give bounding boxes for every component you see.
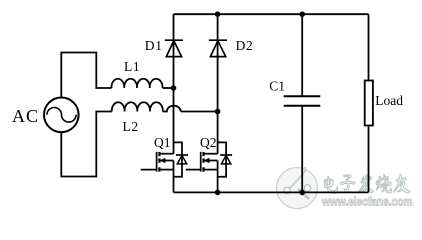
node dot Q2 source bottom — [215, 190, 221, 196]
wire top rail — [174, 13, 369, 15]
Q2 body diode branch — [218, 142, 227, 176]
diode D2 — [209, 40, 227, 56]
Q1 drain stub — [160, 153, 174, 155]
wire bottom rail — [174, 191, 369, 193]
Q2 drain stub — [204, 153, 218, 155]
Q2 gate bar — [200, 152, 202, 172]
Q1 body stub — [160, 160, 174, 162]
wire load bottom lead — [368, 126, 370, 193]
node dot C1 top — [299, 11, 305, 17]
svg-text:www.elecfans.com: www.elecfans.com — [321, 194, 412, 208]
AC source V1 — [44, 98, 79, 133]
node dot L1-D1 junction — [171, 85, 177, 91]
wire load top lead — [368, 14, 370, 80]
wire D2 column: rail to Q2 drain — [217, 14, 219, 154]
Q1 source vertical — [173, 161, 175, 193]
node dot D2 top — [215, 11, 221, 17]
Q2 gate lead — [186, 169, 201, 171]
wire C1 top lead — [301, 14, 303, 96]
Q1 source stub — [160, 169, 174, 171]
resistor Load — [365, 81, 373, 126]
transistor Q2 — [186, 142, 232, 192]
wire L1 to D1 node — [163, 87, 174, 89]
node dot L2-D2 junction — [215, 109, 221, 115]
wire AC bottom lead — [61, 112, 112, 177]
Q1 channel segments — [158, 152, 160, 156]
Q2 body arrow — [204, 158, 209, 163]
wire L2 crossover hop — [163, 106, 181, 112]
Q2 source vertical — [217, 161, 219, 193]
Q2 channel segments — [202, 152, 204, 156]
svg-text:D1: D1 — [145, 38, 163, 53]
svg-text:L2: L2 — [123, 119, 139, 134]
svg-text:D2: D2 — [236, 38, 254, 53]
node dot C1 bottom — [299, 190, 305, 196]
svg-text:Q1: Q1 — [154, 135, 171, 150]
wire C1 bottom lead — [301, 106, 303, 193]
Q1 gate bar — [156, 152, 158, 172]
Q1 body diode branch — [174, 142, 183, 176]
wire D1 column: rail to Q1 drain — [173, 14, 175, 154]
capacitor C1 — [284, 96, 321, 106]
wire L2 hop to Q2 node — [181, 111, 218, 113]
wire AC top lead — [61, 53, 111, 98]
Q1 body arrow — [160, 158, 165, 163]
svg-text:Q2: Q2 — [200, 135, 217, 150]
svg-text:Load: Load — [375, 93, 403, 108]
Q2 body stub — [204, 160, 218, 162]
svg-text:C1: C1 — [269, 78, 285, 93]
watermark chinese text — [324, 174, 410, 193]
inductor L1 — [111, 79, 162, 88]
watermark logo circle — [277, 167, 318, 209]
Q2 source stub — [204, 169, 218, 171]
transistor Q1 — [141, 142, 188, 192]
Q1 gate lead — [141, 169, 157, 171]
svg-text:L1: L1 — [124, 59, 140, 74]
inductor L2 — [112, 102, 163, 111]
svg-text:AC: AC — [12, 106, 39, 126]
diode D1 — [165, 40, 183, 56]
